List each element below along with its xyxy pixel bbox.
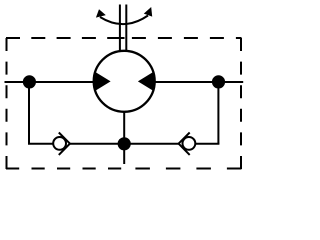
enclosure top edge left part (dashed): [6, 37, 96, 39]
enclosure bottom edge right part (dashed): [135, 168, 241, 170]
wire: right port line: [153, 81, 243, 83]
wire: center node to check valve V2: [124, 143, 180, 145]
node: left junction: [23, 75, 36, 88]
node: center junction: [118, 137, 131, 150]
motor element triangle right: [138, 71, 154, 91]
motor element triangle left: [94, 71, 110, 91]
wire: check valve V1 to center node: [69, 143, 125, 145]
enclosure right edge (dashed): [240, 38, 242, 169]
node: right junction: [212, 75, 225, 88]
wire: left port line: [5, 81, 96, 83]
wire: motor bottom to center node: [123, 110, 125, 144]
motor M1 (circle): [94, 51, 155, 112]
wire: check valve V2 to right branch: [194, 143, 219, 145]
wire: left branch vertical: [28, 82, 30, 144]
check valve V1 seat: [59, 133, 70, 155]
wire: right branch vertical: [217, 82, 219, 144]
wire: drain stub below center node: [123, 144, 125, 164]
wire: left branch horizontal to check valve: [28, 143, 54, 145]
check valve V1 ball: [53, 137, 66, 150]
rotation arrow (bidirectional arc): [96, 7, 152, 24]
enclosure top edge right part (dashed): [132, 37, 242, 39]
check valve V2 seat: [179, 133, 190, 155]
enclosure bottom edge left part (dashed): [6, 168, 121, 170]
shaft (double line): [120, 5, 126, 52]
enclosure left edge (dashed): [6, 38, 8, 169]
check valve V2 ball: [183, 137, 196, 150]
